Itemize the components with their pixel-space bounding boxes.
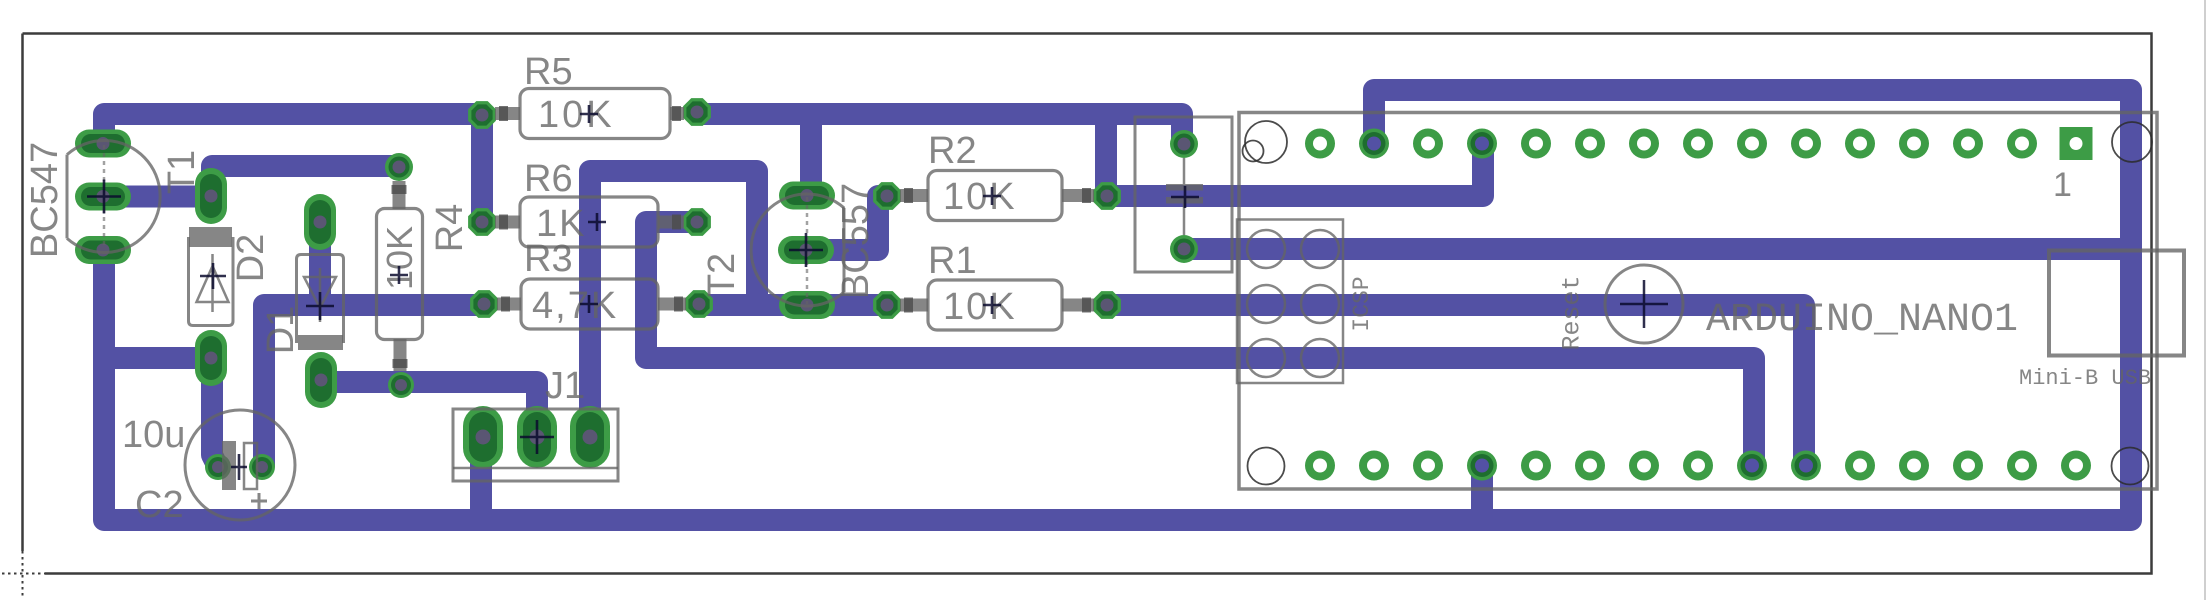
transistor T2 BC557: [751, 182, 844, 320]
wire C1 minus to right GND rail: [1184, 238, 2131, 260]
svg-text:R5: R5: [524, 51, 573, 93]
label T2: [701, 253, 743, 297]
wire R6 right down and east to nano bottom pad9: [646, 222, 1754, 465]
svg-text:BC547: BC547: [24, 142, 66, 258]
svg-text:10K: 10K: [943, 286, 1017, 328]
svg-text:10K: 10K: [538, 94, 615, 136]
svg-text:Mini-B USB: Mini-B USB: [2019, 366, 2151, 391]
wire jog R2 right to top corridor: [1095, 114, 1117, 196]
svg-text:BC557: BC557: [835, 183, 877, 299]
nano corner hole bottom-right: [2112, 448, 2149, 485]
connector J1: [453, 406, 618, 481]
label C2: [135, 484, 184, 526]
module ARDUINO_NANO1 outline: [1239, 113, 2157, 490]
label ARDUINO_NANO1: [1706, 298, 2018, 343]
svg-text:ARDUINO_NANO1: ARDUINO_NANO1: [1706, 298, 2018, 343]
wire D1 cathode to R4 bottom to J1 pin2: [321, 382, 537, 437]
label T1: [161, 150, 203, 194]
wire D2 cathode to C2 minus pad: [212, 358, 218, 467]
label Reset: [1558, 275, 1587, 350]
wire net VCC: R5 right along top to C1 plus: [697, 114, 1182, 142]
svg-text:10u: 10u: [122, 414, 185, 456]
svg-text:ICSP: ICSP: [1349, 276, 1375, 331]
svg-text:C2: C2: [135, 484, 184, 526]
label ICSP: [1349, 276, 1375, 331]
resistor R2 10K: [873, 171, 1121, 221]
svg-text:T2: T2: [701, 253, 743, 297]
label R6: [524, 158, 573, 200]
wire GND ring: T1 emitter down, bottom rail, right rail, top rail to pad D12: [104, 90, 2131, 520]
nano corner hole bottom-left: [1248, 448, 1285, 485]
window edge line: [2204, 0, 2206, 600]
label R3: [524, 238, 573, 280]
wire R1 right east to nano bottom pad10: [1107, 305, 1804, 465]
label BC557: [835, 183, 877, 299]
svg-text:R3: R3: [524, 238, 573, 280]
svg-text:J1: J1: [545, 365, 585, 407]
resistor R3 4,7K: [470, 279, 713, 329]
svg-text:Reset: Reset: [1558, 275, 1587, 350]
wire T1 base to D2 anode: [104, 186, 211, 208]
wire GND branch to D2 cathode pad: [104, 347, 211, 369]
resistor R5 10K: [468, 89, 711, 139]
svg-text:D1: D1: [260, 306, 302, 355]
resistor R6 1K: [468, 197, 711, 247]
label R1: [928, 240, 977, 282]
svg-text:4,7K: 4,7K: [532, 285, 618, 327]
wire R2 right to nano top pad4: [1107, 142, 1483, 196]
nano corner hole top-left: [1243, 121, 1288, 163]
capacitor C1: [1135, 117, 1232, 272]
wire J1 pin1 to GND rail: [470, 437, 492, 520]
connector USB Mini-B outline: [2049, 251, 2184, 356]
diode D1: [297, 194, 344, 408]
reset button Reset: [1605, 265, 1683, 343]
wire R3 right to T2 collector to R1 left: [698, 294, 887, 316]
label R2: [928, 130, 977, 172]
transistor T1 BC547: [67, 130, 160, 265]
wire T2 emitter stub to top corridor: [800, 114, 822, 195]
value 10u: [122, 414, 185, 456]
nano pin 1 square pad: [2060, 127, 2093, 160]
nano top pin row pads 2-15: [1305, 129, 2037, 159]
wire J1 pin3 up through R3 R6 and over to lower corridor: [590, 171, 757, 437]
origin cross: [2, 551, 46, 596]
connector ICSP header: [1237, 220, 1343, 384]
label D2: [230, 234, 272, 283]
wire C2 plus up and over to R3 left through D1: [264, 305, 484, 467]
diode D2: [189, 168, 234, 386]
wire T1 collector to R5 left and down to R6 left: [104, 114, 482, 222]
label D1: [260, 306, 302, 355]
wire nano bottom pad4 to GND rail: [1471, 465, 1493, 520]
nano bottom pin row pads 16-30: [1305, 451, 2091, 481]
svg-text:R1: R1: [928, 240, 977, 282]
resistor R1 10K: [873, 280, 1121, 330]
svg-text:10K: 10K: [943, 176, 1017, 218]
svg-text:1: 1: [2053, 166, 2072, 204]
label R4: [429, 204, 471, 253]
label BC547: [24, 142, 66, 258]
wire T2 base to R2 left: [805, 196, 886, 250]
label J1: [545, 365, 585, 407]
svg-text:D2: D2: [230, 234, 272, 283]
svg-text:R2: R2: [928, 130, 977, 172]
wire D1 anode stub down: [309, 222, 331, 305]
wire D2 anode up to R4 top: [212, 166, 399, 200]
nano corner hole top-right: [2112, 122, 2152, 162]
pin number 1: [2053, 166, 2072, 204]
label R5: [524, 51, 573, 93]
svg-text:R4: R4: [429, 204, 471, 253]
resistor R4 10K vertical: [377, 153, 423, 398]
capacitor C2 10u: [185, 410, 295, 520]
svg-text:R6: R6: [524, 158, 573, 200]
label Mini-B USB: [2019, 366, 2151, 391]
